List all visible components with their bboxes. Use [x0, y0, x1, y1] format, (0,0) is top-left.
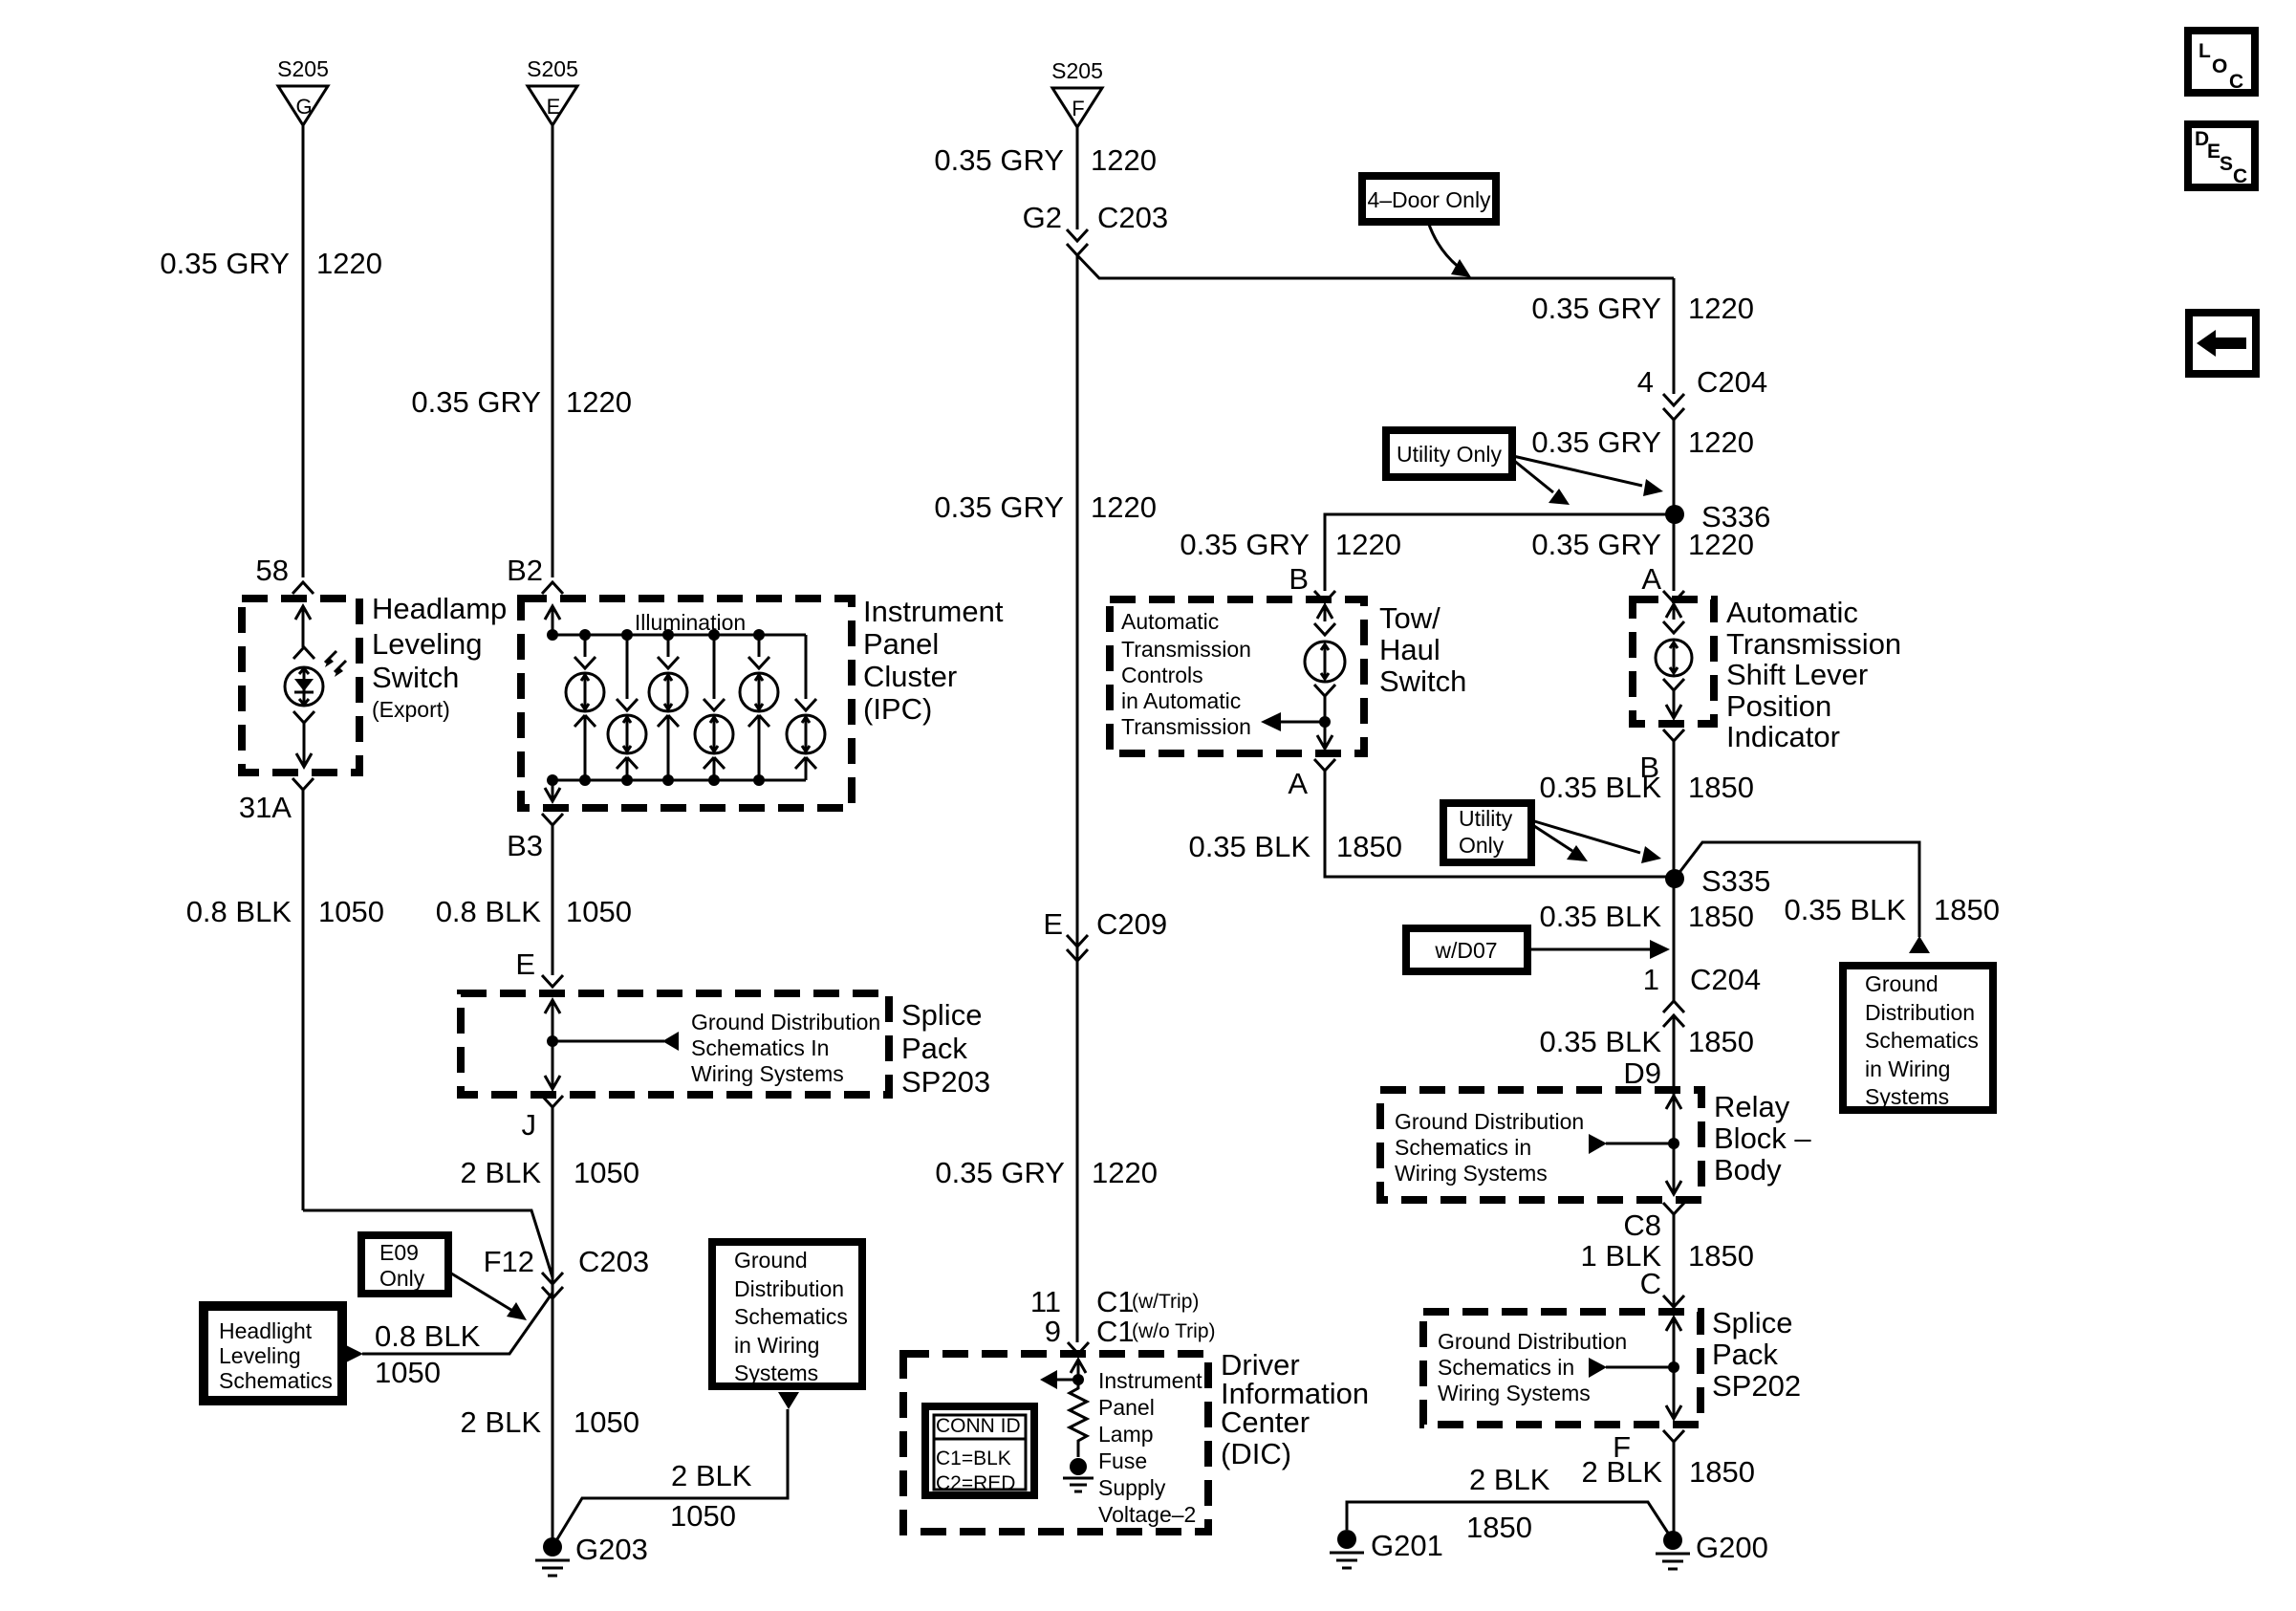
svg-text:C203: C203 [1097, 201, 1168, 234]
svg-text:A: A [1288, 767, 1308, 800]
wire label 0.35 GRY 1220 (wire E) [411, 385, 632, 419]
svg-text:Instrument: Instrument [863, 595, 1004, 628]
pin B label (Tow/Haul) [1289, 562, 1309, 596]
svg-text:G200: G200 [1696, 1531, 1768, 1564]
connector C203 chevrons [542, 1273, 563, 1298]
svg-text:F12: F12 [484, 1245, 534, 1278]
svg-text:2 BLK: 2 BLK [1469, 1463, 1550, 1496]
headlight leveling schematics box [204, 1306, 342, 1401]
relay block note text [1395, 1109, 1584, 1186]
wire label 0.35 GRY 1220 (wire F mid) [934, 490, 1157, 524]
pin B2 label [507, 554, 543, 587]
svg-text:1850: 1850 [1688, 900, 1754, 933]
w/D07 arrow [1527, 940, 1670, 959]
svg-text:Wiring Systems: Wiring Systems [1395, 1161, 1548, 1186]
svg-text:E: E [547, 95, 561, 119]
w/D07 box [1406, 928, 1527, 971]
svg-text:C2=RED: C2=RED [936, 1472, 1015, 1494]
wire label 0.35 BLK 1850 (above relay block) [1539, 1025, 1754, 1058]
connector chevron below SP202 (F) [1663, 1430, 1684, 1442]
svg-text:C209: C209 [1096, 907, 1167, 941]
wire to S336 [1673, 420, 1676, 591]
svg-text:C: C [2229, 71, 2243, 93]
svg-text:2 BLK: 2 BLK [671, 1459, 752, 1492]
svg-text:0.35 GRY: 0.35 GRY [1531, 292, 1661, 325]
svg-text:in Automatic: in Automatic [1121, 688, 1241, 713]
IPC bulb branch 4 [695, 635, 733, 780]
IPC bottom bus junction dots [547, 774, 765, 786]
svg-text:E09: E09 [379, 1240, 419, 1265]
tow/haul label [1379, 601, 1466, 698]
connector chevron below tow/haul (A) [1314, 759, 1335, 771]
svg-text:Schematics: Schematics [734, 1304, 848, 1329]
svg-text:0.35 BLK: 0.35 BLK [1539, 771, 1661, 804]
connector chevron at B [1314, 591, 1335, 602]
svg-text:C1: C1 [1096, 1315, 1135, 1348]
svg-text:C1: C1 [1096, 1285, 1135, 1318]
svg-text:4–Door Only: 4–Door Only [1367, 187, 1491, 212]
svg-text:Panel: Panel [1098, 1395, 1155, 1420]
svg-text:Shift Lever: Shift Lever [1726, 658, 1868, 691]
wire label 0.35 GRY 1220 (A branch) [1531, 528, 1754, 561]
wire label 2 BLK 1050 (above C203) [461, 1156, 639, 1189]
svg-text:G: G [295, 95, 312, 119]
svg-text:Systems: Systems [1865, 1084, 1949, 1109]
E09 arrow [448, 1272, 527, 1320]
wire relay block to SP202 [1673, 1214, 1676, 1312]
svg-text:Fuse: Fuse [1098, 1448, 1147, 1473]
svg-text:Ground Distribution: Ground Distribution [1395, 1109, 1584, 1134]
wire G lower segment [302, 790, 305, 1210]
svg-text:1220: 1220 [1335, 528, 1401, 561]
headlamp switch label text [372, 592, 507, 722]
relay block label [1714, 1090, 1811, 1186]
pin J label [522, 1108, 537, 1142]
wire label 0.8 BLK 1050 (wire E) [436, 895, 632, 928]
svg-text:C1=BLK: C1=BLK [936, 1448, 1011, 1469]
shift indicator internal wire bottom [1663, 679, 1684, 718]
svg-text:S205: S205 [277, 56, 329, 81]
svg-text:1050: 1050 [566, 895, 632, 928]
splice S205 triangle F [1051, 58, 1103, 127]
svg-text:2 BLK: 2 BLK [461, 1405, 542, 1439]
wire label 0.35 BLK 1850 (above S335) [1539, 771, 1754, 804]
headlamp switch internal wire and up arrow [293, 606, 314, 659]
pin A label below tow/haul [1288, 767, 1308, 800]
svg-text:1220: 1220 [1091, 490, 1157, 524]
svg-text:O: O [2212, 55, 2227, 77]
svg-text:in Wiring: in Wiring [1865, 1056, 1950, 1081]
splice junction S336 [1665, 500, 1770, 533]
DIC entry wire with up arrow [1071, 1360, 1086, 1382]
pin B label below shift indicator [1639, 751, 1659, 784]
Utility Only box (S336) [1386, 430, 1512, 477]
splice pack SP202 label [1712, 1306, 1801, 1403]
svg-text:1220: 1220 [316, 247, 382, 280]
connector C209 chevrons [1067, 935, 1088, 961]
svg-text:Voltage–2: Voltage–2 [1098, 1502, 1196, 1527]
svg-text:E: E [1043, 907, 1063, 941]
tow/haul switch box (dashed) [1110, 599, 1364, 753]
svg-text:Schematics in: Schematics in [1395, 1135, 1531, 1160]
pin C8 label [1623, 1208, 1661, 1242]
svg-text:Transmission: Transmission [1121, 637, 1251, 662]
IPC exit wire with down arrow [545, 780, 560, 801]
svg-text:SP202: SP202 [1712, 1369, 1801, 1403]
connector chevron below relay block (C8) [1663, 1203, 1684, 1214]
svg-text:F: F [1072, 97, 1084, 120]
connector C204 chevrons (up) [1663, 1001, 1684, 1027]
relay block body box (dashed) [1380, 1090, 1701, 1200]
connector chevron at J [542, 1096, 563, 1107]
svg-text:Ground Distribution: Ground Distribution [691, 1010, 880, 1034]
svg-text:G201: G201 [1371, 1529, 1443, 1562]
svg-text:0.35 GRY: 0.35 GRY [1531, 528, 1661, 561]
svg-text:1220: 1220 [1688, 292, 1754, 325]
DIC resistor zigzag [1070, 1382, 1087, 1457]
svg-text:C204: C204 [1690, 963, 1761, 996]
wire label 0.35 BLK 1850 (below S335 left) [1539, 900, 1754, 933]
svg-text:1220: 1220 [1688, 425, 1754, 459]
svg-text:4: 4 [1637, 365, 1654, 399]
svg-text:Leveling: Leveling [219, 1343, 301, 1368]
svg-text:58: 58 [256, 554, 289, 587]
svg-text:Schematics in: Schematics in [1438, 1355, 1574, 1380]
svg-text:11: 11 [1030, 1285, 1061, 1318]
svg-text:Wiring Systems: Wiring Systems [1438, 1381, 1591, 1405]
svg-text:Leveling: Leveling [372, 627, 482, 661]
pin 31A label [239, 791, 292, 824]
svg-text:0.35 GRY: 0.35 GRY [935, 1156, 1065, 1189]
splice S205 triangle G [277, 56, 329, 125]
IPC bulb branch 3 [649, 635, 687, 780]
branch wire S335 to ground distribution flag [1675, 842, 1919, 937]
SP203 note text [691, 1010, 880, 1086]
wire E mid segment [552, 825, 554, 975]
DIC internal ground [1063, 1458, 1094, 1491]
svg-text:S335: S335 [1701, 864, 1770, 898]
wire label 2 BLK 1050 (above G203) [461, 1405, 639, 1439]
svg-text:Headlamp: Headlamp [372, 592, 507, 625]
SP202 note text [1438, 1329, 1627, 1405]
svg-text:C204: C204 [1697, 365, 1767, 399]
wire to relay block [1673, 1015, 1676, 1096]
svg-text:Splice: Splice [1712, 1306, 1792, 1339]
svg-text:1050: 1050 [375, 1356, 441, 1389]
svg-text:in Wiring: in Wiring [734, 1333, 819, 1358]
svg-text:Instrument: Instrument [1098, 1368, 1202, 1393]
pin E label [515, 947, 535, 981]
svg-text:C: C [1640, 1267, 1661, 1300]
wire F vertical from S205-F [1076, 127, 1079, 229]
tow/haul junction dot and left arrow [1261, 712, 1331, 731]
Utility Only arrows to S336 [1513, 456, 1663, 505]
wire label 2 BLK 1850 (above G200) [1582, 1455, 1755, 1489]
svg-text:Panel: Panel [863, 627, 939, 661]
DIC label text [1221, 1348, 1369, 1470]
svg-text:C8: C8 [1623, 1208, 1661, 1242]
splice junction S335 [1665, 864, 1770, 898]
branch wire to 4-door-only run [1077, 255, 1674, 278]
connector chevron at E [542, 975, 563, 987]
wire from G203 to ground distribution flag [552, 1409, 788, 1547]
splice S205 triangle E [527, 56, 578, 125]
svg-text:Utility: Utility [1459, 806, 1513, 831]
svg-text:Headlight: Headlight [219, 1318, 313, 1343]
instrument panel cluster box (dashed) [521, 599, 852, 808]
shift indicator internal wire top [1663, 604, 1684, 633]
shift lever position indicator box (dashed) [1633, 599, 1714, 724]
svg-text:9: 9 [1045, 1315, 1061, 1348]
svg-text:Systems: Systems [734, 1361, 818, 1385]
flag arrow into ground distribution box [778, 1392, 799, 1409]
svg-text:Schematics: Schematics [219, 1368, 333, 1393]
flag arrow into right ground distribution box [1909, 936, 1930, 953]
svg-text:Ground Distribution: Ground Distribution [1438, 1329, 1627, 1354]
svg-text:1220: 1220 [566, 385, 632, 419]
svg-text:0.35 GRY: 0.35 GRY [934, 490, 1064, 524]
ground G203 [535, 1533, 648, 1576]
svg-text:1050: 1050 [318, 895, 384, 928]
shift indicator label [1726, 596, 1901, 753]
svg-text:0.35 GRY: 0.35 GRY [1180, 528, 1310, 561]
svg-text:1850: 1850 [1688, 1239, 1754, 1273]
tow/haul internal wire bottom [1314, 685, 1335, 749]
relay block junction dot and pointer [1589, 1134, 1679, 1154]
Utility Only box (S335) [1443, 803, 1531, 862]
svg-text:Pack: Pack [901, 1032, 967, 1065]
IPC bulb branch 6 [787, 635, 825, 780]
svg-text:1850: 1850 [1934, 893, 2000, 926]
svg-text:0.8 BLK: 0.8 BLK [375, 1319, 481, 1353]
wire tow/haul A to S335 [1325, 771, 1675, 877]
connector chevron above SP202 [1663, 1295, 1684, 1307]
IPC entry wire with up arrow [545, 606, 560, 635]
pin 11 C1 (w/Trip) label [1030, 1285, 1200, 1318]
svg-text:1850: 1850 [1336, 830, 1402, 863]
SP202 junction dot and pointer [1589, 1358, 1679, 1378]
E09 Only box [361, 1235, 448, 1294]
wire label 0.35 GRY 1220 (wire F top) [934, 143, 1157, 177]
wire E lower segment to C203 [552, 1107, 554, 1552]
wire F continues below C203 [1076, 255, 1079, 1342]
svg-text:Wiring Systems: Wiring Systems [691, 1061, 844, 1086]
svg-text:Body: Body [1714, 1153, 1782, 1186]
svg-text:0.35 BLK: 0.35 BLK [1539, 900, 1661, 933]
svg-text:0.8 BLK: 0.8 BLK [186, 895, 292, 928]
svg-text:S205: S205 [1051, 58, 1103, 83]
svg-text:Switch: Switch [1379, 664, 1466, 698]
svg-text:1850: 1850 [1466, 1511, 1532, 1544]
headlamp switch lower wire and down arrow [293, 711, 314, 767]
connector chevron at pin 58 [292, 582, 314, 594]
IPC bulb branch 1 [566, 635, 604, 780]
svg-text:E: E [515, 947, 535, 981]
pin G2 and C203 labels [1023, 201, 1168, 234]
svg-text:Utility Only: Utility Only [1397, 442, 1502, 467]
connector chevron below headlamp box [292, 778, 314, 790]
wire label 2 BLK 1050 (G203 branch) [670, 1459, 752, 1533]
svg-text:Haul: Haul [1379, 633, 1440, 666]
wire label 0.35 BLK 1850 (tow/haul A) [1188, 830, 1402, 863]
svg-text:Center: Center [1221, 1405, 1310, 1439]
svg-text:0.35 BLK: 0.35 BLK [1784, 893, 1906, 926]
wire label 0.8 BLK 1050 (headlight wire) [375, 1319, 481, 1389]
svg-text:Splice: Splice [901, 998, 982, 1032]
svg-text:SP203: SP203 [901, 1065, 990, 1099]
splice pack SP203 box (dashed) [461, 993, 889, 1095]
ground G201 [1330, 1529, 1443, 1568]
connector chevron above DIC [1068, 1342, 1089, 1354]
wire G201 to G200 [1347, 1502, 1673, 1540]
svg-text:S: S [2220, 153, 2233, 175]
svg-text:1050: 1050 [574, 1156, 639, 1189]
IPC bulb branch 2 [608, 635, 646, 780]
connector chevron at A [1663, 591, 1684, 602]
splice pack SP203 label [901, 998, 990, 1099]
branch wire S336 to Tow/Haul B [1325, 514, 1674, 591]
shift indicator bulb [1656, 640, 1692, 676]
svg-text:CONN ID: CONN ID [936, 1415, 1021, 1437]
svg-text:1850: 1850 [1689, 1455, 1755, 1489]
svg-text:1850: 1850 [1688, 1025, 1754, 1058]
svg-text:Schematics: Schematics [1865, 1028, 1979, 1053]
wire shift-B to S335 [1673, 741, 1676, 1001]
wire label 0.35 GRY 1220 (wire F bottom) [935, 1156, 1158, 1189]
Utility Only arrows to S335 [1531, 820, 1661, 863]
svg-text:D9: D9 [1623, 1056, 1661, 1090]
SP203 junction dot and pointer [547, 1032, 679, 1051]
svg-text:C203: C203 [578, 1245, 649, 1278]
svg-text:1220: 1220 [1092, 1156, 1158, 1189]
wire label 0.35 BLK 1850 (branch right) [1784, 893, 2000, 926]
svg-text:2 BLK: 2 BLK [461, 1156, 542, 1189]
svg-text:B: B [1289, 562, 1309, 596]
svg-text:Automatic: Automatic [1726, 596, 1858, 629]
svg-text:Ground: Ground [734, 1248, 808, 1273]
svg-text:G2: G2 [1023, 201, 1062, 234]
pin F label [1613, 1430, 1631, 1464]
svg-text:Tow/: Tow/ [1379, 601, 1440, 635]
pin C label [1640, 1267, 1661, 1300]
svg-text:(Export): (Export) [372, 697, 450, 722]
svg-text:1220: 1220 [1091, 143, 1157, 177]
svg-text:E: E [2207, 141, 2220, 163]
IPC bottom bus [552, 779, 806, 782]
svg-text:Position: Position [1726, 689, 1831, 723]
wire G vertical from S205-G [302, 125, 305, 577]
IPC bulb branch 5 [740, 635, 778, 780]
wire label 2 BLK 1850 (G201 run) [1466, 1463, 1550, 1544]
DESC legend box [2188, 124, 2255, 187]
wire E vertical from S205-E [552, 125, 554, 577]
CONN ID table [925, 1406, 1034, 1495]
svg-text:S205: S205 [527, 56, 578, 81]
svg-text:Cluster: Cluster [863, 660, 957, 693]
svg-text:1850: 1850 [1688, 771, 1754, 804]
svg-text:B3: B3 [507, 829, 543, 862]
pin 58 label [256, 554, 289, 587]
svg-text:0.8 BLK: 0.8 BLK [436, 895, 542, 928]
IPC top bus [552, 634, 806, 637]
wire label 0.8 BLK 1050 (wire G) [186, 895, 384, 928]
headlight schematics wire with flag [346, 1293, 552, 1362]
svg-text:B2: B2 [507, 554, 543, 587]
svg-text:(IPC): (IPC) [863, 692, 932, 726]
svg-text:Transmission: Transmission [1121, 714, 1251, 739]
svg-text:Relay: Relay [1714, 1090, 1790, 1123]
4-Door Only box [1362, 176, 1496, 222]
back-arrow legend box [2189, 313, 2256, 374]
wire label 0.35 GRY 1220 (right top) [1531, 292, 1754, 325]
svg-text:Only: Only [1459, 833, 1505, 858]
pin E and C209 labels [1043, 907, 1167, 941]
right wire from 4-door run down to C204 [1673, 278, 1676, 394]
connector chevron at B2 [542, 582, 563, 594]
svg-text:Indicator: Indicator [1726, 720, 1840, 753]
pin D9 label [1623, 1056, 1661, 1090]
wire SP202 to G200 [1673, 1442, 1676, 1540]
tow/haul bulb [1305, 642, 1345, 682]
wire label 0.35 GRY 1220 (wire G) [160, 247, 382, 280]
svg-text:Controls: Controls [1121, 663, 1203, 687]
pin A label (shift indicator) [1641, 562, 1661, 596]
svg-text:L: L [2199, 40, 2211, 62]
svg-text:0.35 GRY: 0.35 GRY [934, 143, 1064, 177]
IPC top bus junction dots [547, 629, 765, 641]
LED light arrows [325, 651, 346, 677]
svg-text:Only: Only [379, 1266, 425, 1291]
DIC junction dot and left arrow [1040, 1370, 1084, 1389]
svg-text:0.35 GRY: 0.35 GRY [160, 247, 290, 280]
DIC function text [1098, 1368, 1202, 1527]
svg-text:1050: 1050 [670, 1499, 736, 1533]
svg-text:(w/Trip): (w/Trip) [1132, 1291, 1199, 1313]
svg-text:Illumination: Illumination [635, 610, 746, 635]
svg-text:0.35 BLK: 0.35 BLK [1188, 830, 1310, 863]
IPC label text [863, 595, 1004, 726]
svg-text:Distribution: Distribution [1865, 1000, 1975, 1025]
wire label 0.35 GRY 1220 (B branch) [1180, 528, 1401, 561]
LOC legend box [2188, 31, 2255, 93]
svg-text:(w/o Trip): (w/o Trip) [1132, 1320, 1216, 1342]
pin B3 label [507, 829, 543, 862]
svg-text:(DIC): (DIC) [1221, 1437, 1291, 1470]
tow/haul internal wire top [1314, 605, 1335, 635]
connector chevron below shift indicator (B) [1663, 729, 1684, 741]
ground distribution schematics box (left) [712, 1242, 862, 1386]
headlamp leveling switch box (dashed) [242, 599, 359, 773]
splice pack SP202 box (dashed) [1423, 1312, 1700, 1425]
svg-text:31A: 31A [239, 791, 292, 824]
connector C204 chevrons [1663, 394, 1684, 420]
SP202 internal wire arrows [1666, 1317, 1681, 1419]
svg-text:1220: 1220 [1688, 528, 1754, 561]
relay block internal wire arrows [1666, 1096, 1681, 1194]
svg-text:Automatic: Automatic [1121, 609, 1219, 634]
pin F12 and C203 labels [484, 1245, 650, 1278]
tow/haul inner note text [1121, 609, 1251, 739]
svg-text:Ground: Ground [1865, 971, 1939, 996]
svg-text:2 BLK: 2 BLK [1582, 1455, 1663, 1489]
svg-text:Lamp: Lamp [1098, 1422, 1154, 1447]
svg-text:Pack: Pack [1712, 1338, 1778, 1371]
Illumination label [635, 610, 746, 635]
wire label 1 BLK 1850 [1581, 1239, 1754, 1273]
wire label 0.35 GRY 1220 (above S336) [1531, 425, 1754, 459]
pin 9 C1 (w/o Trip) label [1045, 1315, 1216, 1348]
svg-text:w/D07: w/D07 [1434, 938, 1497, 963]
